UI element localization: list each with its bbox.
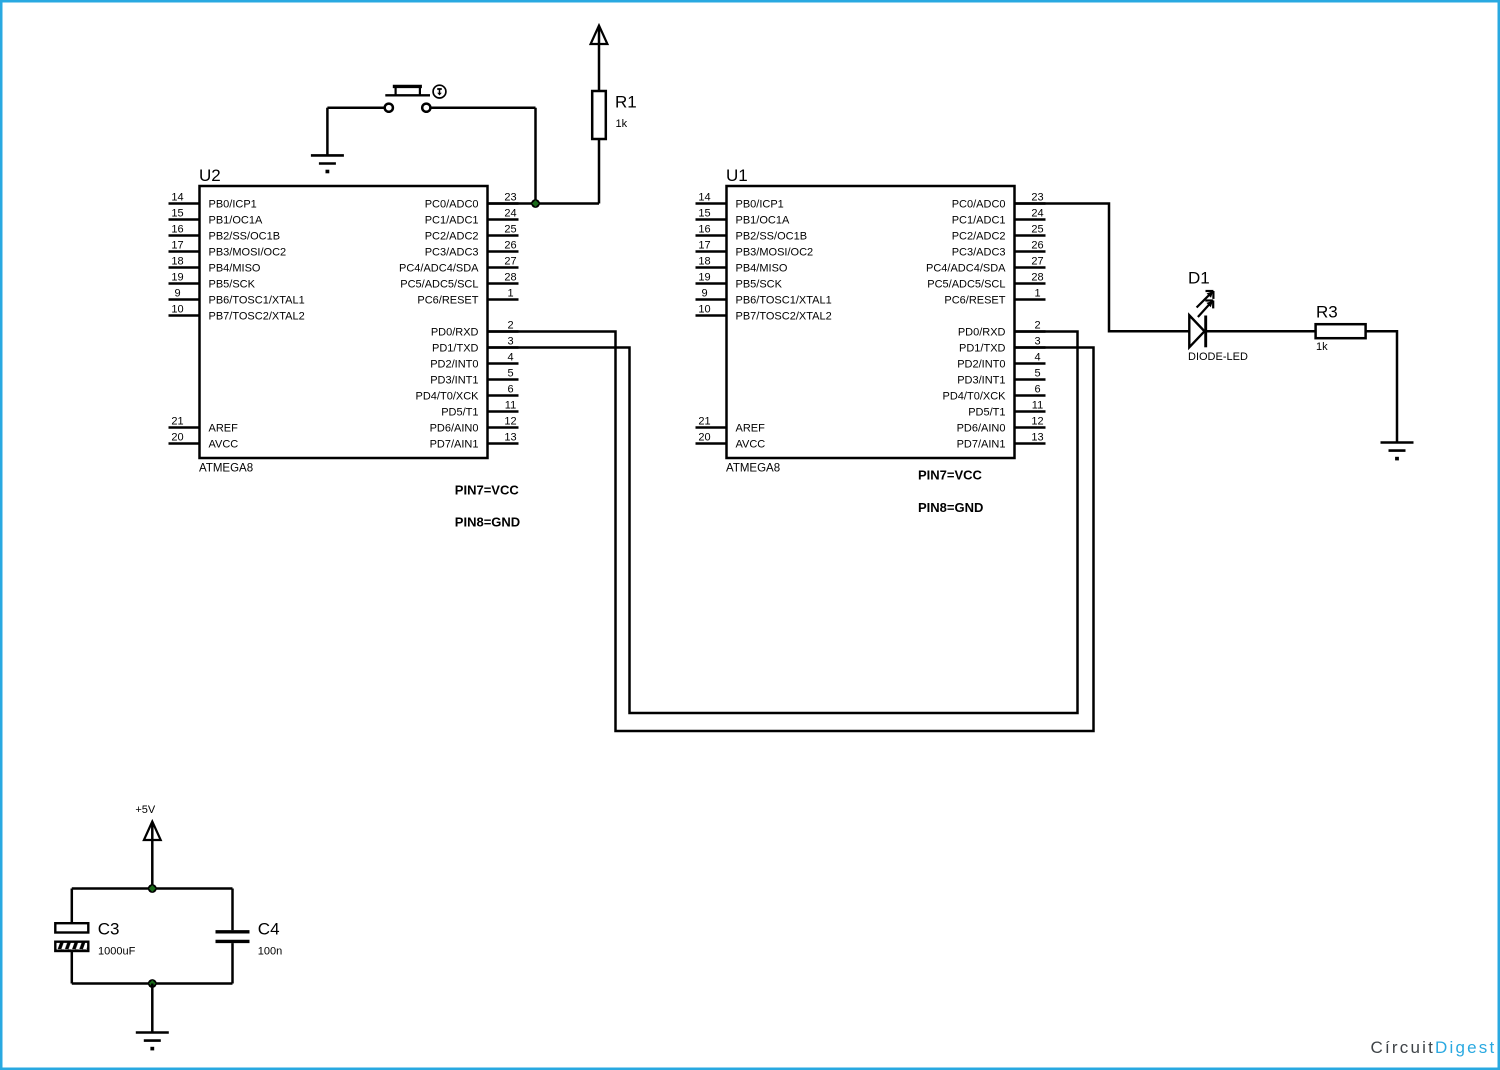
power +5V label bbox=[135, 804, 156, 816]
wire button left terminal to ground drop bbox=[327, 106, 384, 109]
svg-text:PC2/ADC2: PC2/ADC2 bbox=[425, 231, 479, 243]
U2 pin 20 AVCC bbox=[169, 432, 239, 451]
svg-text:PB2/SS/OC1B: PB2/SS/OC1B bbox=[736, 231, 808, 243]
svg-text:27: 27 bbox=[504, 256, 516, 268]
svg-text:PD2/INT0: PD2/INT0 bbox=[957, 359, 1005, 371]
U1 pin 19 PB5/SCK bbox=[696, 272, 783, 291]
svg-text:PB5/SCK: PB5/SCK bbox=[209, 279, 256, 291]
svg-text:PB0/ICP1: PB0/ICP1 bbox=[209, 199, 257, 211]
power VCC arrow above R1 bbox=[591, 26, 608, 45]
svg-text:PC0/ADC0: PC0/ADC0 bbox=[952, 199, 1006, 211]
wire R3 to ground corner bbox=[1366, 331, 1397, 442]
svg-text:13: 13 bbox=[504, 432, 516, 444]
U2 pin 3 PD1/TXD bbox=[432, 336, 518, 355]
svg-text:23: 23 bbox=[1031, 192, 1043, 204]
svg-text:PC2/ADC2: PC2/ADC2 bbox=[952, 231, 1006, 243]
svg-text:14: 14 bbox=[698, 192, 710, 204]
label U2 bbox=[199, 166, 221, 185]
U2 pin 28 PC5/ADC5/SCL bbox=[400, 272, 518, 291]
svg-text:5: 5 bbox=[1034, 368, 1040, 380]
svg-text:PC1/ADC1: PC1/ADC1 bbox=[425, 215, 479, 227]
svg-text:PD4/T0/XCK: PD4/T0/XCK bbox=[416, 391, 480, 403]
U2 pin 6 PD4/T0/XCK bbox=[416, 384, 519, 403]
wire bottom rail to ground bbox=[151, 984, 154, 1032]
svg-text:19: 19 bbox=[171, 272, 183, 284]
U1 pin 26 PC3/ADC3 bbox=[952, 240, 1046, 259]
svg-text:PB1/OC1A: PB1/OC1A bbox=[736, 215, 790, 227]
label R3 bbox=[1316, 303, 1338, 322]
U1 pin 5 PD3/INT1 bbox=[957, 368, 1045, 387]
svg-text:24: 24 bbox=[504, 208, 516, 220]
svg-text:25: 25 bbox=[1031, 224, 1043, 236]
svg-text:25: 25 bbox=[504, 224, 516, 236]
svg-text:PC5/ADC5/SCL: PC5/ADC5/SCL bbox=[400, 279, 478, 291]
svg-text:PD1/TXD: PD1/TXD bbox=[959, 343, 1006, 355]
svg-text:PD6/AIN0: PD6/AIN0 bbox=[957, 423, 1006, 435]
wire button right terminal to node A bbox=[431, 106, 536, 109]
ground (rail) bbox=[136, 1033, 169, 1051]
resistor R1 bbox=[592, 91, 606, 139]
svg-text:17: 17 bbox=[698, 240, 710, 252]
svg-text:PIN7=VCC: PIN7=VCC bbox=[455, 483, 520, 498]
svg-text:R1: R1 bbox=[615, 93, 637, 112]
note U1 PIN8=GND bbox=[918, 500, 983, 515]
U1 pin 24 PC1/ADC1 bbox=[952, 208, 1046, 227]
svg-text:C3: C3 bbox=[98, 920, 120, 939]
wire ground drop vertical bbox=[326, 108, 329, 155]
svg-text:PD7/AIN1: PD7/AIN1 bbox=[430, 439, 479, 451]
svg-text:27: 27 bbox=[1031, 256, 1043, 268]
svg-text:PB0/ICP1: PB0/ICP1 bbox=[736, 199, 784, 211]
svg-text:19: 19 bbox=[698, 272, 710, 284]
U2 pin 9 PB6/TOSC1/XTAL1 bbox=[169, 288, 305, 307]
svg-text:10: 10 bbox=[171, 304, 183, 316]
svg-text:PC3/ADC3: PC3/ADC3 bbox=[425, 247, 479, 259]
svg-text:PD2/INT0: PD2/INT0 bbox=[430, 359, 478, 371]
CircuitDigest logo bbox=[1371, 1038, 1497, 1057]
svg-text:21: 21 bbox=[171, 416, 183, 428]
svg-text:100n: 100n bbox=[258, 946, 282, 958]
label R1 bbox=[615, 93, 637, 112]
ground (R3) bbox=[1381, 443, 1414, 461]
U1 pin 15 PB1/OC1A bbox=[696, 208, 790, 227]
U2 pin 16 PB2/SS/OC1B bbox=[169, 224, 281, 243]
svg-text:11: 11 bbox=[1032, 400, 1043, 412]
svg-text:5: 5 bbox=[507, 368, 513, 380]
push button SW1 bbox=[385, 85, 446, 112]
capacitor C3 (electrolytic) bbox=[55, 923, 88, 951]
svg-text:PC4/ADC4/SDA: PC4/ADC4/SDA bbox=[399, 263, 479, 275]
wire R1 bottom to pin 23 net bbox=[598, 139, 601, 204]
svg-text:AREF: AREF bbox=[209, 423, 239, 435]
svg-text:PB7/TOSC2/XTAL2: PB7/TOSC2/XTAL2 bbox=[736, 311, 832, 323]
svg-text:PB5/SCK: PB5/SCK bbox=[736, 279, 783, 291]
label C3 bbox=[98, 920, 120, 939]
svg-text:15: 15 bbox=[171, 208, 183, 220]
wire D1 cathode to R3 bbox=[1207, 330, 1316, 333]
svg-text:C4: C4 bbox=[258, 920, 280, 939]
U1 pin 25 PC2/ADC2 bbox=[952, 224, 1046, 243]
svg-text:PD4/T0/XCK: PD4/T0/XCK bbox=[943, 391, 1007, 403]
svg-text:1: 1 bbox=[507, 288, 513, 300]
wire U1 PC0/ADC0 pin 23 to D1 anode bbox=[1015, 204, 1190, 332]
U2 pin 11 PD5/T1 bbox=[441, 400, 518, 419]
U2 pin 13 PD7/AIN1 bbox=[430, 432, 519, 451]
svg-text:3: 3 bbox=[507, 336, 513, 348]
note U2 PIN8=GND bbox=[455, 515, 520, 530]
svg-text:PD0/RXD: PD0/RXD bbox=[958, 327, 1006, 339]
U1 pin 13 PD7/AIN1 bbox=[957, 432, 1046, 451]
U2 pin 12 PD6/AIN0 bbox=[430, 416, 519, 435]
U1 pin 23 PC0/ADC0 bbox=[952, 192, 1046, 211]
svg-text:PC4/ADC4/SDA: PC4/ADC4/SDA bbox=[926, 263, 1006, 275]
svg-text:PB3/MOSI/OC2: PB3/MOSI/OC2 bbox=[209, 247, 287, 259]
svg-text:PD5/T1: PD5/T1 bbox=[441, 407, 478, 419]
U2 pin 19 PB5/SCK bbox=[169, 272, 256, 291]
U1 pin 18 PB4/MISO bbox=[696, 256, 788, 275]
wire bottom rail bbox=[72, 982, 233, 985]
U1 pin 27 PC4/ADC4/SDA bbox=[926, 256, 1045, 275]
svg-text:PC0/ADC0: PC0/ADC0 bbox=[425, 199, 479, 211]
svg-text:4: 4 bbox=[1034, 352, 1040, 364]
U1 pin 12 PD6/AIN0 bbox=[957, 416, 1046, 435]
svg-text:AVCC: AVCC bbox=[209, 439, 239, 451]
svg-text:AVCC: AVCC bbox=[736, 439, 766, 451]
label D1 bbox=[1188, 269, 1210, 288]
U1 pin 21 AREF bbox=[696, 416, 766, 435]
label C4 bbox=[258, 920, 280, 939]
U1 pin 16 PB2/SS/OC1B bbox=[696, 224, 808, 243]
svg-text:21: 21 bbox=[698, 416, 710, 428]
U2 pin 23 PC0/ADC0 bbox=[425, 192, 519, 211]
U2 pin 18 PB4/MISO bbox=[169, 256, 261, 275]
svg-text:3: 3 bbox=[1034, 336, 1040, 348]
svg-text:PIN8=GND: PIN8=GND bbox=[918, 500, 983, 515]
U2 pin 10 PB7/TOSC2/XTAL2 bbox=[169, 304, 305, 323]
svg-text:2: 2 bbox=[1034, 320, 1040, 332]
svg-text:20: 20 bbox=[171, 432, 183, 444]
svg-text:PC6/RESET: PC6/RESET bbox=[417, 295, 478, 307]
svg-text:10: 10 bbox=[698, 304, 710, 316]
U2 pin 24 PC1/ADC1 bbox=[425, 208, 519, 227]
wire +5V arrow down to rail bbox=[151, 823, 154, 889]
svg-text:9: 9 bbox=[174, 288, 180, 300]
U1 pin 20 AVCC bbox=[696, 432, 766, 451]
svg-text:AREF: AREF bbox=[736, 423, 766, 435]
value 1000uF (C3) bbox=[98, 946, 136, 958]
svg-text:16: 16 bbox=[171, 224, 183, 236]
svg-text:PD1/TXD: PD1/TXD bbox=[432, 343, 479, 355]
wire top rail bbox=[72, 887, 233, 890]
U2 pin 1 PC6/RESET bbox=[417, 288, 518, 307]
junction bottom rail bbox=[148, 979, 157, 988]
LED arrows bbox=[1197, 291, 1214, 317]
svg-text:U1: U1 bbox=[726, 166, 748, 185]
wire C3 bottom bbox=[71, 951, 74, 984]
U1 pin 3 PD1/TXD bbox=[959, 336, 1045, 355]
svg-text:PB6/TOSC1/XTAL1: PB6/TOSC1/XTAL1 bbox=[209, 295, 305, 307]
svg-text:26: 26 bbox=[1031, 240, 1043, 252]
svg-text:PD7/AIN1: PD7/AIN1 bbox=[957, 439, 1006, 451]
U2 pin 17 PB3/MOSI/OC2 bbox=[169, 240, 287, 259]
svg-text:12: 12 bbox=[1031, 416, 1043, 428]
U1 pin 1 PC6/RESET bbox=[944, 288, 1045, 307]
U1 pin 2 PD0/RXD bbox=[958, 320, 1046, 339]
svg-text:9: 9 bbox=[701, 288, 707, 300]
power +5V arrow bbox=[144, 822, 161, 841]
svg-text:13: 13 bbox=[1031, 432, 1043, 444]
svg-text:PD3/INT1: PD3/INT1 bbox=[957, 375, 1005, 387]
svg-text:15: 15 bbox=[698, 208, 710, 220]
junction top rail bbox=[148, 884, 157, 893]
svg-text:20: 20 bbox=[698, 432, 710, 444]
svg-text:PB2/SS/OC1B: PB2/SS/OC1B bbox=[209, 231, 281, 243]
svg-text:11: 11 bbox=[505, 400, 516, 412]
svg-text:16: 16 bbox=[698, 224, 710, 236]
svg-text:PC3/ADC3: PC3/ADC3 bbox=[952, 247, 1006, 259]
svg-text:PC6/RESET: PC6/RESET bbox=[944, 295, 1005, 307]
note U1 PIN7=VCC bbox=[918, 468, 983, 483]
wire node A vertical down to pin 23 net bbox=[534, 108, 537, 204]
svg-text:18: 18 bbox=[698, 256, 710, 268]
U1 pin 10 PB7/TOSC2/XTAL2 bbox=[696, 304, 832, 323]
svg-text:PB3/MOSI/OC2: PB3/MOSI/OC2 bbox=[736, 247, 814, 259]
svg-text:+5V: +5V bbox=[135, 804, 156, 816]
U2 pin 5 PD3/INT1 bbox=[430, 368, 518, 387]
svg-text:PB1/OC1A: PB1/OC1A bbox=[209, 215, 263, 227]
svg-text:28: 28 bbox=[1031, 272, 1043, 284]
svg-text:26: 26 bbox=[504, 240, 516, 252]
svg-text:28: 28 bbox=[504, 272, 516, 284]
value DIODE-LED (D1) bbox=[1188, 351, 1248, 363]
svg-text:PB7/TOSC2/XTAL2: PB7/TOSC2/XTAL2 bbox=[209, 311, 305, 323]
U2 pin 21 AREF bbox=[169, 416, 239, 435]
svg-text:1k: 1k bbox=[1316, 341, 1328, 353]
svg-text:12: 12 bbox=[504, 416, 516, 428]
capacitor C4 bbox=[216, 932, 250, 942]
U1 pin 6 PD4/T0/XCK bbox=[943, 384, 1046, 403]
svg-text:PD3/INT1: PD3/INT1 bbox=[430, 375, 478, 387]
svg-text:6: 6 bbox=[507, 384, 513, 396]
wire rail down to C3 bbox=[71, 889, 74, 924]
svg-text:U2: U2 bbox=[199, 166, 221, 185]
value 100n (C4) bbox=[258, 946, 282, 958]
value 1k (R1) bbox=[616, 118, 628, 130]
U1 pin 11 PD5/T1 bbox=[968, 400, 1045, 419]
wire VCC arrow to R1 top bbox=[598, 27, 601, 91]
value 1k (R3) bbox=[1316, 341, 1328, 353]
svg-text:R3: R3 bbox=[1316, 303, 1338, 322]
svg-text:ATMEGA8: ATMEGA8 bbox=[726, 463, 780, 475]
U2 pin 27 PC4/ADC4/SDA bbox=[399, 256, 518, 275]
svg-text:PD0/RXD: PD0/RXD bbox=[431, 327, 479, 339]
wire rail down to C4 bbox=[231, 889, 234, 931]
svg-text:PC1/ADC1: PC1/ADC1 bbox=[952, 215, 1006, 227]
svg-text:1: 1 bbox=[1034, 288, 1040, 300]
svg-text:18: 18 bbox=[171, 256, 183, 268]
svg-text:17: 17 bbox=[171, 240, 183, 252]
wire U2 PC0/ADC0 pin 23 net bbox=[488, 202, 600, 205]
svg-text:1k: 1k bbox=[616, 118, 628, 130]
svg-text:PD5/T1: PD5/T1 bbox=[968, 407, 1005, 419]
U2 pin 14 PB0/ICP1 bbox=[169, 192, 257, 211]
U2 pin 26 PC3/ADC3 bbox=[425, 240, 519, 259]
svg-text:CírcuitDigest: CírcuitDigest bbox=[1371, 1038, 1497, 1057]
svg-text:24: 24 bbox=[1031, 208, 1043, 220]
svg-text:PIN7=VCC: PIN7=VCC bbox=[918, 468, 983, 483]
U1 pin 28 PC5/ADC5/SCL bbox=[927, 272, 1045, 291]
svg-text:PC5/ADC5/SCL: PC5/ADC5/SCL bbox=[927, 279, 1005, 291]
diode D1 bbox=[1189, 315, 1205, 347]
U1 pin 17 PB3/MOSI/OC2 bbox=[696, 240, 814, 259]
U2 pin 4 PD2/INT0 bbox=[430, 352, 518, 371]
svg-text:PD6/AIN0: PD6/AIN0 bbox=[430, 423, 479, 435]
label U1 bbox=[726, 166, 748, 185]
svg-text:PB6/TOSC1/XTAL1: PB6/TOSC1/XTAL1 bbox=[736, 295, 832, 307]
node A junction bbox=[531, 199, 540, 208]
wire C4 bottom bbox=[231, 943, 234, 983]
resistor R3 bbox=[1316, 324, 1366, 338]
ground (button) bbox=[311, 155, 344, 173]
note U2 PIN7=VCC bbox=[455, 483, 520, 498]
U2 pin 2 PD0/RXD bbox=[431, 320, 519, 339]
svg-text:PB4/MISO: PB4/MISO bbox=[736, 263, 788, 275]
U1 pin 9 PB6/TOSC1/XTAL1 bbox=[696, 288, 832, 307]
svg-text:23: 23 bbox=[504, 192, 516, 204]
U2 pin 15 PB1/OC1A bbox=[169, 208, 263, 227]
wire U2 PD1/TXD to U1 PD0/RXD (inner loop) bbox=[488, 332, 1078, 714]
U1 pin 4 PD2/INT0 bbox=[957, 352, 1045, 371]
svg-text:14: 14 bbox=[171, 192, 183, 204]
svg-text:1000uF: 1000uF bbox=[98, 946, 136, 958]
value ATMEGA8 (U1) bbox=[726, 463, 780, 475]
svg-text:ATMEGA8: ATMEGA8 bbox=[199, 463, 253, 475]
op-amp style IC body U2 (ATMEGA8) bbox=[200, 186, 488, 458]
U2 pin 25 PC2/ADC2 bbox=[425, 224, 519, 243]
svg-text:PIN8=GND: PIN8=GND bbox=[455, 515, 520, 530]
op-amp style IC body U1 (ATMEGA8) bbox=[727, 186, 1015, 458]
U1 pin 14 PB0/ICP1 bbox=[696, 192, 784, 211]
svg-text:DIODE-LED: DIODE-LED bbox=[1188, 351, 1248, 363]
svg-text:6: 6 bbox=[1034, 384, 1040, 396]
svg-text:PB4/MISO: PB4/MISO bbox=[209, 263, 261, 275]
svg-text:4: 4 bbox=[507, 352, 513, 364]
value ATMEGA8 (U2) bbox=[199, 463, 253, 475]
wire U2 PD0/RXD to U1 PD1/TXD (outer loop) bbox=[488, 332, 1094, 732]
svg-text:2: 2 bbox=[507, 320, 513, 332]
svg-text:D1: D1 bbox=[1188, 269, 1210, 288]
